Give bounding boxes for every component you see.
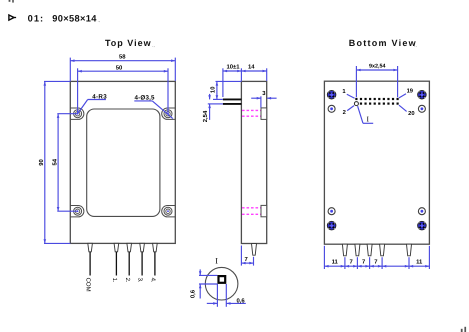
detail dimension 0,6 horizontal line xyxy=(207,302,218,304)
dimension 7 line xyxy=(241,262,253,264)
svg-text:.,: ., xyxy=(152,43,155,49)
top view pin 1 lead xyxy=(115,252,117,276)
bottom view mounting hole bottom-left xyxy=(328,208,335,215)
top view body outline xyxy=(70,81,175,243)
detail view pin cross-section square xyxy=(219,276,226,283)
svg-text:Top View: Top View xyxy=(105,38,152,48)
detail view circle xyxy=(205,267,238,300)
dimension 14 extension lines xyxy=(240,68,242,81)
svg-text:9x2,54: 9x2,54 xyxy=(369,63,386,69)
detail dimension 0,6 vertical line xyxy=(199,269,201,275)
bottom view standoff top-right xyxy=(418,90,427,99)
dimension 58 line xyxy=(70,60,175,62)
svg-text:50: 50 xyxy=(116,65,123,72)
bottom view pin 4 body xyxy=(380,244,385,256)
svg-text:10: 10 xyxy=(209,86,216,93)
dimension 50 extension lines xyxy=(77,68,79,113)
svg-text:11: 11 xyxy=(416,259,423,266)
bottom view pin 2 body xyxy=(355,244,360,256)
dimension 10±1 line xyxy=(223,70,242,72)
bottom view body outline xyxy=(324,81,429,244)
header bullet arrow xyxy=(9,15,14,20)
top view pin 4 body xyxy=(153,243,158,251)
detail dimension 0,6 horizontal extension lines xyxy=(216,284,218,307)
top view mounting ear top-right xyxy=(162,108,176,119)
svg-text:2: 2 xyxy=(343,109,346,116)
svg-text:4.: 4. xyxy=(150,278,157,283)
side view hidden hole line upper-row2b xyxy=(242,213,261,215)
bottom view header pin row 1 (pins 1-19) xyxy=(355,98,357,100)
detail dimension 0,6 vertical extension lines xyxy=(199,274,217,276)
side view counterbore step lower xyxy=(261,205,267,216)
top view pin 3 body xyxy=(140,243,145,251)
svg-text:19: 19 xyxy=(407,87,414,94)
dimension 10±1 extension line xyxy=(222,68,224,97)
svg-text:11: 11 xyxy=(332,259,339,266)
bottom view pin 5 body xyxy=(407,244,412,256)
page top-left residual mark xyxy=(9,0,11,2)
dimension 2,54 line xyxy=(209,94,211,100)
side view hidden hole line upper-row2a xyxy=(242,207,261,209)
top view mounting hole bottom-left xyxy=(74,207,82,215)
dimension 10 extension line xyxy=(216,80,242,82)
top view mounting ear top-left xyxy=(70,108,84,119)
bottom view pin 3 body xyxy=(367,244,372,256)
side view hidden line lower xyxy=(242,115,261,117)
dimension 7 extension lines xyxy=(240,246,242,266)
side view bottom pin xyxy=(252,244,257,256)
dimension 10 line xyxy=(216,81,218,99)
svg-text:10±1: 10±1 xyxy=(226,64,240,71)
bottom view standoff top-left xyxy=(327,90,336,99)
dimension 90 line xyxy=(44,81,46,243)
top view mounting hole top-right xyxy=(164,110,172,118)
dimension 54 extension lines xyxy=(57,113,77,115)
dimension 9x2,54 line xyxy=(356,69,397,71)
bottom view pin 1 body xyxy=(342,244,347,256)
side view body outline xyxy=(241,81,266,243)
svg-text:90×58×14: 90×58×14 xyxy=(52,14,97,24)
top view pin 3 lead xyxy=(141,252,143,276)
side view connector pin row upper xyxy=(223,98,242,100)
svg-text:01:: 01: xyxy=(28,14,45,24)
svg-text:2,54: 2,54 xyxy=(202,110,209,122)
side view connector pin row lower xyxy=(223,103,242,105)
bottom view pin 2 indicator circle xyxy=(354,102,358,106)
top view pin 1 body xyxy=(114,243,119,251)
dimension 90 extension lines xyxy=(44,80,70,82)
svg-text:58: 58 xyxy=(119,53,126,60)
bottom view chain dimension extension lines xyxy=(323,246,325,269)
svg-text:54: 54 xyxy=(51,158,58,165)
svg-text:COM: COM xyxy=(85,278,92,292)
dimension 9x2,54 extension lines xyxy=(355,66,357,97)
dimension 2,54 extension line xyxy=(208,103,223,105)
svg-text:0,6: 0,6 xyxy=(190,289,197,298)
svg-text:Bottom View: Bottom View xyxy=(349,38,417,48)
top view pin 4 lead xyxy=(154,252,156,276)
top view mounting ear bottom-right xyxy=(162,206,176,217)
svg-text:.,: ., xyxy=(98,18,101,24)
detail I leader in bottom view xyxy=(358,106,363,123)
svg-text:20: 20 xyxy=(408,110,414,117)
top view mounting hole top-left xyxy=(74,110,82,118)
bottom view standoff bottom-right xyxy=(418,221,427,230)
side view counterbore step upper xyxy=(261,108,267,120)
svg-text:.,: ., xyxy=(414,43,417,49)
bottom view mounting hole top-left xyxy=(328,105,335,112)
top view pin COM lead xyxy=(89,252,91,276)
page bottom-right residual mark xyxy=(461,329,463,332)
dimension 3 extension line xyxy=(260,96,262,107)
top view pin 2 body xyxy=(127,243,132,251)
svg-text:I: I xyxy=(215,256,218,265)
svg-text:90: 90 xyxy=(38,159,45,166)
svg-text:14: 14 xyxy=(248,64,255,71)
dimension 54 line xyxy=(57,114,59,212)
svg-text:3.: 3. xyxy=(137,278,144,283)
bottom view chain dimension line xyxy=(324,265,429,267)
svg-text:2.: 2. xyxy=(124,278,131,283)
top view lid outline xyxy=(87,109,160,216)
side view hidden line upper xyxy=(242,109,261,111)
dimension 3 line xyxy=(251,97,261,99)
top view pin 2 lead xyxy=(128,252,130,276)
bottom view header pin row 2 (pins 4-20) xyxy=(360,103,362,105)
top view pin COM body xyxy=(88,243,93,251)
dimension 14 line xyxy=(241,70,266,72)
dimension 50 line xyxy=(78,70,168,72)
bottom view mounting hole top-right xyxy=(418,105,425,112)
bottom view mounting hole bottom-right xyxy=(418,208,425,215)
bottom view standoff bottom-left xyxy=(327,221,336,230)
top view mounting ear bottom-left xyxy=(70,206,84,217)
top view mounting hole bottom-right xyxy=(164,207,172,215)
svg-text:0,6: 0,6 xyxy=(236,297,245,304)
dimension 58 extension lines xyxy=(69,58,71,81)
svg-text:1.: 1. xyxy=(111,278,118,283)
